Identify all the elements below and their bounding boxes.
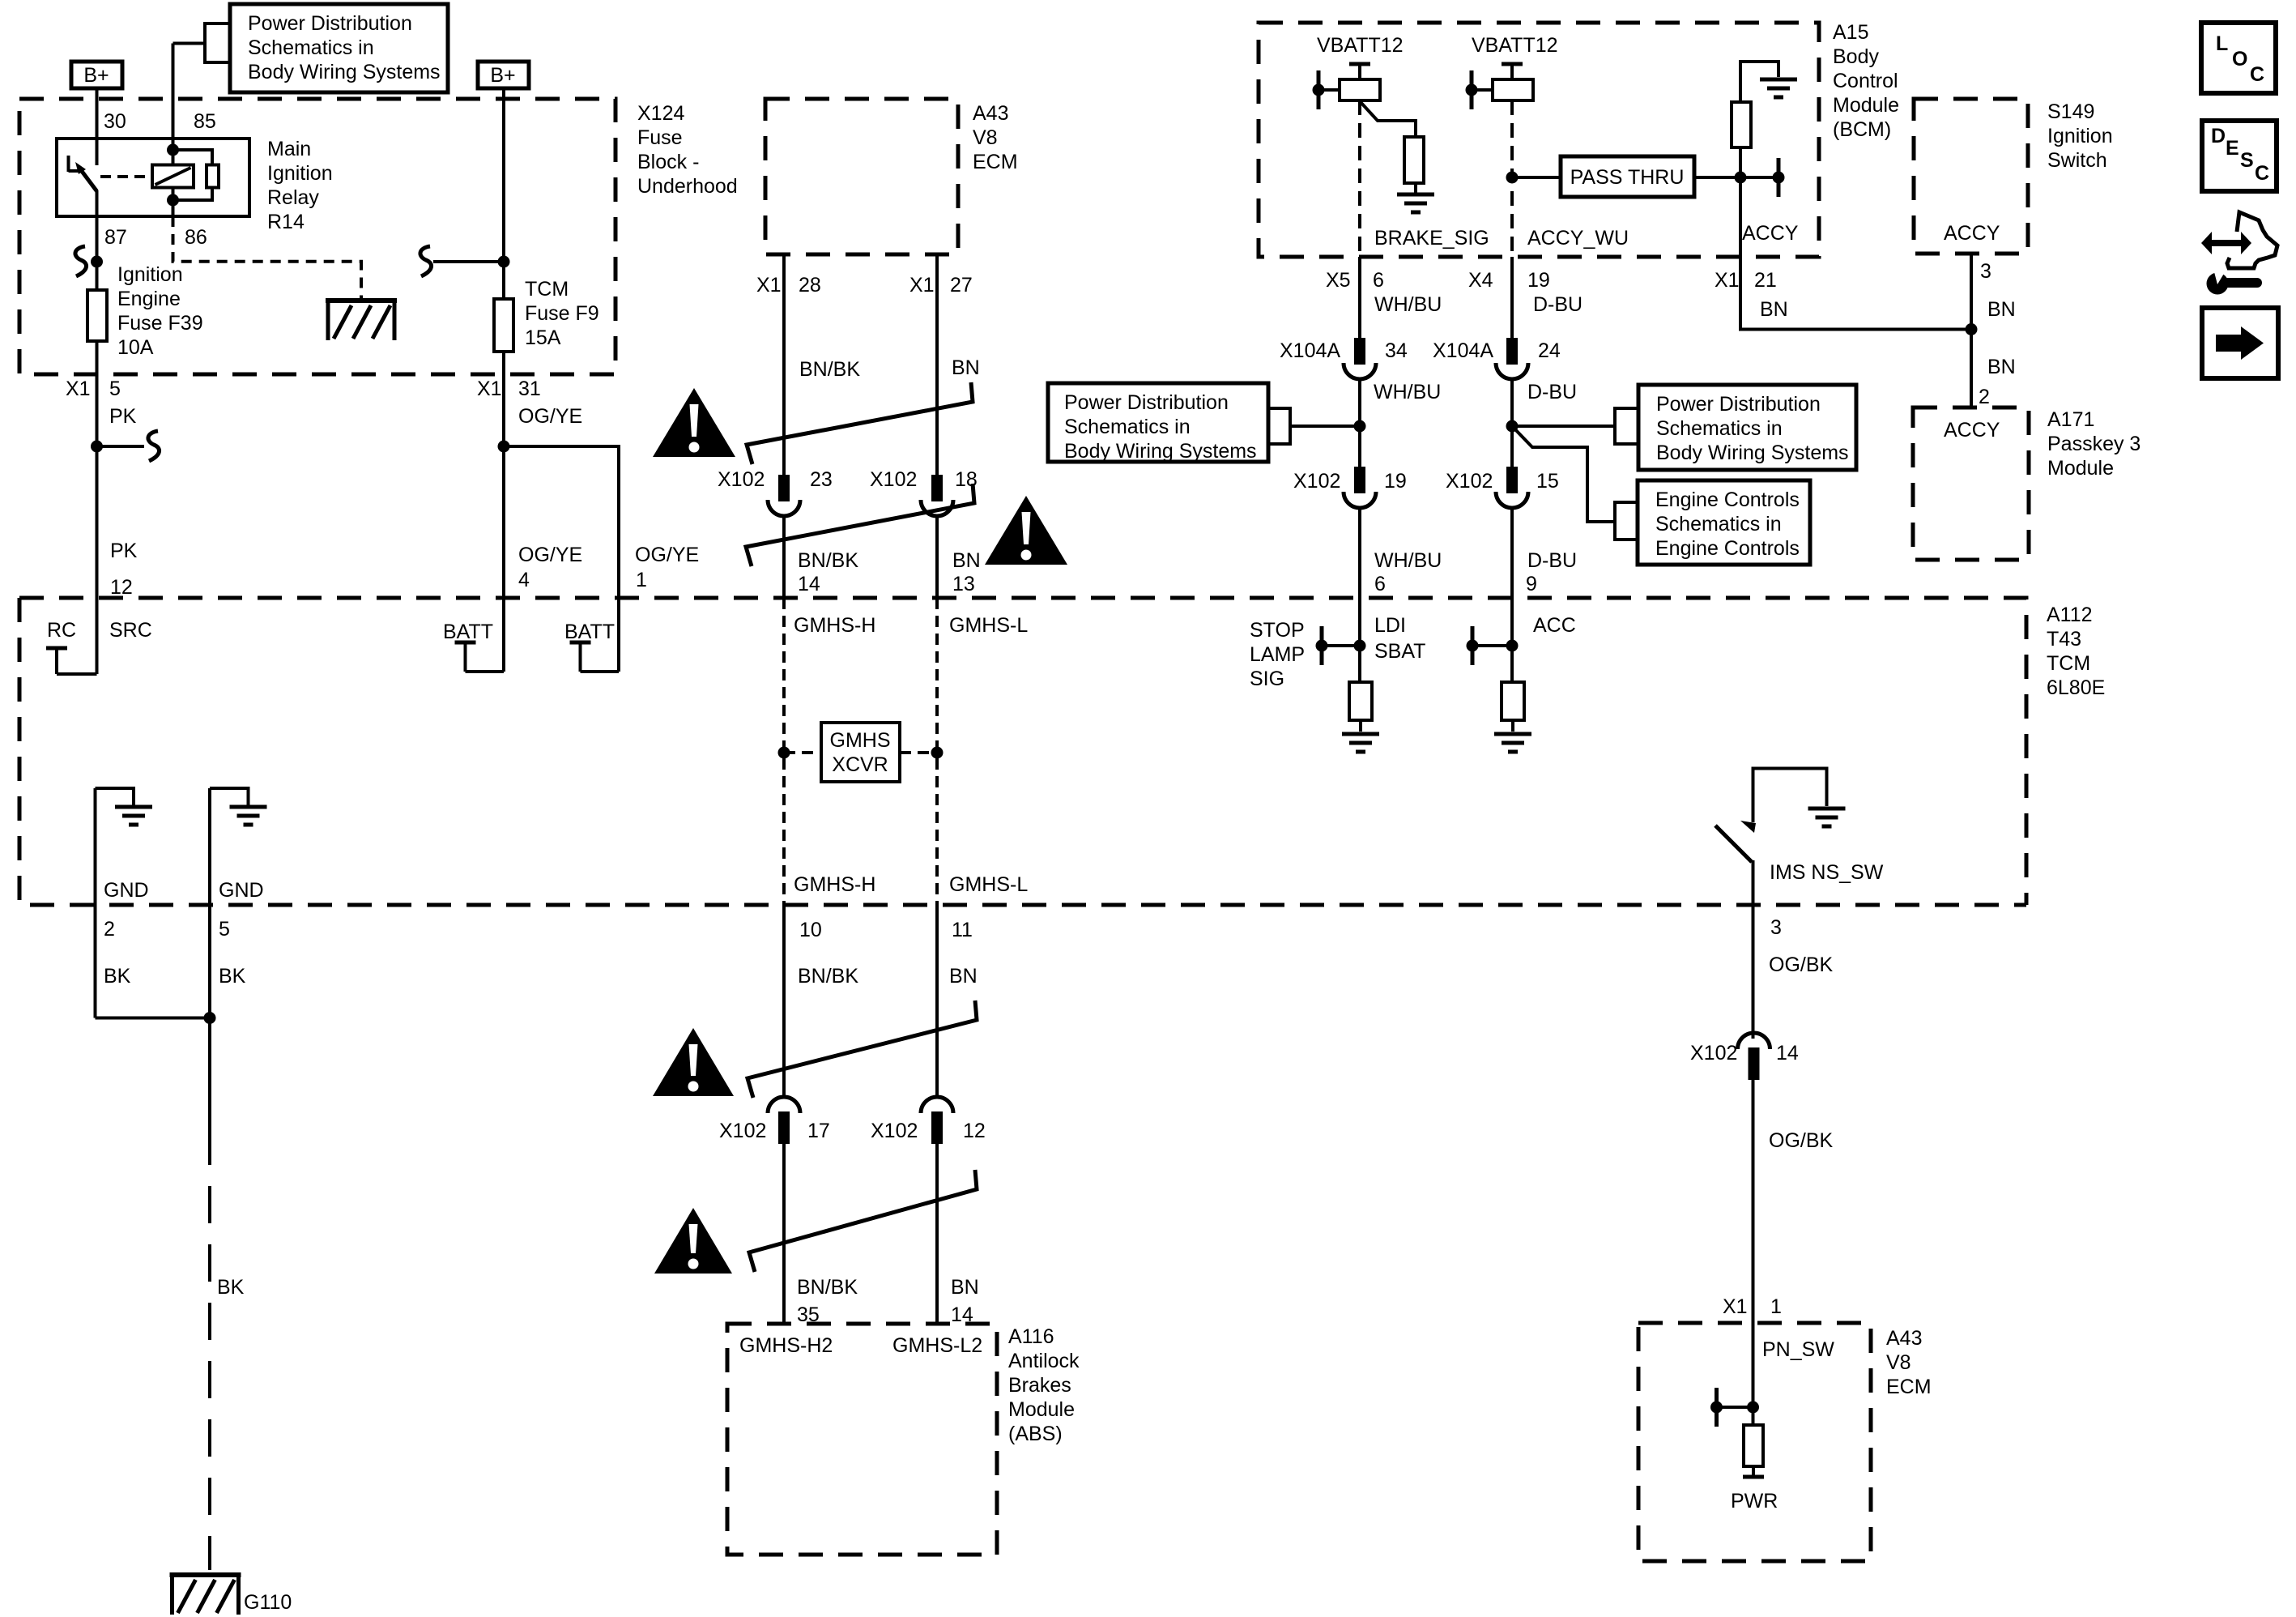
svg-text:X102: X102	[1446, 470, 1493, 493]
icon double arrow	[2201, 232, 2251, 254]
svg-text:PK: PK	[110, 540, 138, 562]
svg-text:X1: X1	[909, 274, 935, 297]
TCM internal terminal RC with SRC wire	[46, 598, 97, 674]
connector X102 pin 23	[768, 475, 800, 516]
relay contact (brake)	[1313, 70, 1381, 109]
svg-text:RC: RC	[47, 619, 76, 642]
wire ECM X1-27 GMHS-L (BN) to X102-18	[935, 254, 939, 475]
svg-text:Relay: Relay	[267, 186, 319, 209]
svg-text:SRC: SRC	[109, 619, 152, 642]
svg-text:X1: X1	[756, 274, 782, 297]
svg-text:2: 2	[104, 918, 115, 941]
labels LDI SBAT	[1374, 614, 1425, 663]
svg-text:GND: GND	[104, 879, 149, 902]
resistor above ACCY junction with ground	[1732, 62, 1797, 177]
label S149 Ignition Switch	[2047, 100, 2113, 172]
wire BCM ACCY BN joining pin 3 wire	[1740, 257, 1971, 330]
svg-text:34: 34	[1385, 339, 1408, 362]
svg-text:OG/YE: OG/YE	[518, 544, 582, 566]
svg-text:5: 5	[219, 918, 230, 941]
svg-text:ECM: ECM	[973, 151, 1018, 173]
svg-text:E: E	[2226, 137, 2239, 160]
label A116 Antilock Brakes Module (ABS)	[1008, 1325, 1080, 1445]
power feed B+ (second)	[478, 62, 529, 88]
chassis ground (relay coil)	[326, 301, 397, 340]
dashed net ACCY_WU	[1510, 100, 1514, 257]
svg-text:X1: X1	[1715, 269, 1740, 292]
svg-text:R14: R14	[267, 211, 305, 233]
icon box DESC	[2202, 121, 2277, 191]
fuse block X124 dashed box	[19, 99, 616, 374]
wire GMHS-H TCM pin 10 down to ABS	[782, 905, 786, 1098]
wire BK to ground G110 (dashed)	[208, 905, 211, 1570]
svg-text:BN: BN	[952, 356, 980, 379]
leader from D-BU junction to Engine Controls box	[1512, 426, 1638, 540]
wire S149 ACCY pin 3 (BN)	[1966, 254, 1978, 407]
labels WH/BU D-BU (second)	[1374, 381, 1577, 403]
svg-text:19: 19	[1527, 269, 1550, 292]
svg-text:5: 5	[109, 378, 121, 400]
svg-text:Power Distribution: Power Distribution	[1064, 391, 1229, 414]
svg-text:X102: X102	[1293, 470, 1340, 493]
svg-text:Main: Main	[267, 138, 311, 160]
label A43 V8 ECM	[973, 102, 1018, 173]
svg-text:OG/BK: OG/BK	[1769, 954, 1834, 976]
svg-text:X1: X1	[477, 378, 502, 400]
note box: Power Distribution Schematics in Body Wiring Systems (top left)	[230, 4, 448, 92]
wire leader from note box to relay pin 85 wire	[173, 23, 231, 139]
TCM internal terminal BATT (pin 4)	[455, 598, 505, 672]
svg-text:WH/BU: WH/BU	[1374, 381, 1441, 403]
svg-text:Antilock: Antilock	[1008, 1350, 1080, 1372]
label Ignition Engine Fuse F39 10A	[117, 263, 203, 359]
svg-text:4: 4	[518, 569, 530, 591]
fuse F9	[494, 299, 513, 352]
wire relay pin 86 dashed to chassis ground	[173, 216, 362, 299]
wire X102-15 to TCM pin 9	[1510, 508, 1514, 598]
svg-text:BN: BN	[1987, 298, 2016, 321]
labels X104A 34 X104A 24	[1280, 339, 1561, 362]
IMS switch arm with arrowhead contact	[1715, 821, 1756, 862]
GMHS XCVR block	[784, 723, 937, 782]
svg-text:6: 6	[1373, 269, 1384, 292]
module box A116 ABS dashed	[727, 1324, 997, 1555]
svg-text:30: 30	[104, 110, 126, 133]
twisted pair symbol 4	[749, 1170, 977, 1272]
ground G110	[170, 1575, 241, 1615]
wire BK pin2 joining pin5	[96, 905, 216, 1024]
svg-text:BK: BK	[217, 1276, 245, 1299]
svg-text:C: C	[2250, 63, 2264, 86]
svg-text:Block -: Block -	[637, 151, 699, 173]
svg-text:XCVR: XCVR	[832, 753, 888, 776]
svg-text:V8: V8	[1886, 1351, 1911, 1374]
dashed net GMHS-H inside TCM	[778, 598, 790, 905]
svg-text:Schematics in: Schematics in	[1655, 513, 1782, 535]
wire X102-23 to TCM pin 14	[782, 516, 786, 598]
labels X1 5 PK / PK 12	[66, 378, 138, 599]
svg-text:D-BU: D-BU	[1533, 293, 1582, 316]
svg-text:IMS NS_SW: IMS NS_SW	[1770, 861, 1884, 884]
note box: Engine Controls Schematics in Engine Controls	[1638, 480, 1810, 565]
svg-text:BN: BN	[951, 1276, 979, 1299]
svg-text:GMHS-H: GMHS-H	[794, 873, 875, 896]
wire fuse F9 to TCM pin X1-4 (OG/YE)	[498, 352, 510, 598]
label A43 V8 ECM (bottom)	[1886, 1327, 1932, 1398]
connector X104A pin 24	[1496, 338, 1528, 379]
warning triangle 3	[653, 1028, 734, 1096]
twisted pair symbol 2	[746, 484, 974, 566]
connector X102 pin 19	[1344, 467, 1376, 508]
svg-text:D-BU: D-BU	[1527, 549, 1577, 572]
module box A43 V8 ECM (bottom) dashed	[1638, 1323, 1871, 1561]
svg-text:Fuse F9: Fuse F9	[525, 302, 599, 325]
svg-text:GMHS-L: GMHS-L	[949, 614, 1028, 637]
icon car silhouette	[2227, 212, 2277, 268]
leader from D-BU junction to right note box	[1512, 408, 1638, 444]
label X124 Fuse Block - Underhood	[637, 102, 738, 198]
connector X102 pin 15	[1496, 467, 1528, 508]
power feed VBATT12 (right)	[1472, 34, 1558, 79]
svg-text:ACCY: ACCY	[1944, 222, 2000, 245]
svg-text:TCM: TCM	[525, 278, 569, 301]
svg-text:BATT: BATT	[443, 621, 493, 643]
svg-text:Body Wiring Systems: Body Wiring Systems	[1656, 442, 1849, 464]
svg-text:X4: X4	[1468, 269, 1493, 292]
label A171 Passkey 3 Module	[2047, 408, 2141, 480]
warning triangle 1	[653, 388, 735, 457]
svg-text:PWR: PWR	[1731, 1490, 1778, 1512]
svg-text:10A: 10A	[117, 336, 154, 359]
wire X104A-34 to X102-19	[1354, 379, 1366, 467]
label TCM Fuse F9 15A	[525, 278, 599, 349]
break symbol at pin 87	[75, 246, 87, 276]
svg-text:Engine Controls: Engine Controls	[1655, 489, 1800, 511]
svg-text:GMHS-H: GMHS-H	[794, 614, 875, 637]
svg-text:OG/YE: OG/YE	[518, 405, 582, 428]
wire X102-18 to TCM pin 13	[935, 516, 939, 598]
warning triangle 2	[985, 496, 1067, 565]
svg-text:A43: A43	[1886, 1327, 1922, 1350]
svg-text:Ignition: Ignition	[267, 162, 333, 185]
label IMS NS_SW	[1770, 861, 1884, 884]
label PWR	[1731, 1490, 1778, 1512]
labels OG/YE 4 / OG/YE 1	[518, 544, 699, 591]
IMS switch ground	[1753, 769, 1846, 827]
svg-text:G110: G110	[244, 1591, 292, 1614]
branch wire OG/YE to BATT pin 1	[504, 446, 619, 598]
resistor PWR with termination	[1743, 1425, 1764, 1477]
svg-text:Passkey 3: Passkey 3	[2047, 433, 2141, 455]
svg-text:31: 31	[518, 378, 541, 400]
wire labels BN/BK BN	[799, 356, 980, 381]
TCM internal ground GND pin 2	[96, 788, 153, 905]
ECM internal PN_SW pull-up network	[1710, 1323, 1759, 1427]
labels 10 11 BN/BK BN	[798, 919, 978, 988]
svg-text:Schematics in: Schematics in	[248, 36, 374, 59]
svg-text:GMHS-L: GMHS-L	[949, 873, 1028, 896]
leader bracket from WH/BU junction to middle note box	[1268, 408, 1360, 444]
fuse F39	[87, 290, 107, 341]
pin labels X5 6 X4 19 X1 21	[1326, 269, 1777, 292]
svg-text:X102: X102	[870, 468, 917, 491]
svg-text:Switch: Switch	[2047, 149, 2107, 172]
svg-text:BN: BN	[949, 965, 978, 988]
label G110	[244, 1591, 292, 1614]
labels RC SRC	[47, 619, 152, 642]
svg-text:OG/BK: OG/BK	[1769, 1129, 1834, 1152]
fuse F9 junction and break symbol	[420, 246, 510, 276]
svg-text:GMHS-H2: GMHS-H2	[739, 1334, 833, 1357]
svg-text:12: 12	[963, 1120, 986, 1142]
svg-text:Power Distribution: Power Distribution	[248, 12, 412, 35]
dashed net BRAKE_SIG	[1358, 100, 1361, 257]
labels X102 19 X102 15	[1293, 470, 1559, 493]
module box A171 Passkey 3 dashed	[1913, 407, 2029, 560]
resistor (brake pull) with ground	[1360, 101, 1434, 212]
label Main Ignition Relay R14	[267, 138, 333, 233]
label ACCY (S149)	[1944, 222, 2000, 245]
svg-text:(ABS): (ABS)	[1008, 1423, 1063, 1445]
module box A112 TCM dashed outline	[19, 598, 2026, 905]
svg-text:Brakes: Brakes	[1008, 1374, 1071, 1397]
labels GMHS-H GMHS-L (TCM top)	[794, 614, 1028, 637]
svg-text:11: 11	[952, 919, 973, 941]
wire X104A-24 to X102-15	[1506, 379, 1519, 467]
svg-text:21: 21	[1754, 269, 1777, 292]
svg-text:ACCY_WU: ACCY_WU	[1527, 227, 1629, 250]
svg-text:Ignition: Ignition	[117, 263, 183, 286]
svg-text:13: 13	[952, 573, 975, 595]
svg-text:Body Wiring Systems: Body Wiring Systems	[1064, 440, 1257, 463]
dashed net GMHS-L inside TCM	[931, 598, 944, 905]
labels X102 23 X102 18	[718, 468, 978, 491]
icon wrench	[2207, 269, 2263, 295]
labels GMHS-H GMHS-L (TCM bottom)	[794, 873, 1028, 896]
svg-text:BK: BK	[104, 965, 131, 988]
svg-text:GND: GND	[219, 879, 264, 902]
note box: Power Distribution Schematics in Body Wiring Systems (right)	[1638, 385, 1856, 470]
svg-text:A116: A116	[1008, 1325, 1054, 1348]
relay pin labels 30 85 87 86	[104, 110, 216, 249]
svg-text:BN/BK: BN/BK	[799, 358, 860, 381]
label ACCY (A171)	[1944, 419, 2000, 442]
svg-text:X124: X124	[637, 102, 684, 125]
svg-text:WH/BU: WH/BU	[1374, 549, 1442, 572]
pin labels X1 28 X1 27	[756, 274, 973, 297]
svg-text:S: S	[2240, 149, 2254, 172]
svg-text:PK: PK	[109, 405, 137, 428]
module box A15 BCM dashed	[1259, 23, 1819, 257]
svg-text:Module: Module	[2047, 457, 2114, 480]
svg-text:86: 86	[185, 226, 207, 249]
labels X1 1	[1723, 1295, 1782, 1318]
svg-text:1: 1	[1770, 1295, 1782, 1318]
svg-text:15: 15	[1536, 470, 1559, 493]
svg-text:PN_SW: PN_SW	[1762, 1338, 1834, 1361]
svg-text:3: 3	[1980, 260, 1991, 283]
svg-text:Control: Control	[1833, 70, 1898, 92]
twisted pair symbol 3	[748, 1000, 977, 1098]
labels 3 BN BN 2	[1979, 260, 2016, 408]
break symbol branch on PK wire	[97, 431, 160, 461]
svg-text:X1: X1	[66, 378, 91, 400]
PASS THRU block with wire	[1506, 156, 1779, 197]
svg-text:C: C	[2255, 162, 2269, 185]
svg-text:BN/BK: BN/BK	[797, 1276, 858, 1299]
svg-text:87: 87	[104, 226, 127, 249]
resistor LDI with ground	[1342, 682, 1379, 752]
svg-text:24: 24	[1538, 339, 1561, 362]
svg-text:X104A: X104A	[1433, 339, 1493, 362]
labels BATT BATT	[443, 621, 615, 643]
svg-text:28: 28	[799, 274, 821, 297]
svg-text:14: 14	[798, 573, 820, 595]
svg-text:3: 3	[1770, 916, 1782, 939]
svg-text:SIG: SIG	[1250, 668, 1284, 690]
relay contact (accy wakeup)	[1466, 70, 1534, 109]
svg-text:Module: Module	[1008, 1398, 1075, 1421]
svg-text:ACCY: ACCY	[1944, 419, 2000, 442]
connector X102 pin 17	[768, 1097, 800, 1144]
svg-text:(BCM): (BCM)	[1833, 118, 1891, 141]
svg-text:LAMP: LAMP	[1250, 643, 1305, 666]
svg-text:Underhood: Underhood	[637, 175, 738, 198]
wire X102-19 to TCM pin 6	[1358, 508, 1361, 598]
svg-text:L: L	[2216, 32, 2228, 55]
labels 3 OG/BK	[1769, 916, 1834, 976]
connector X104A pin 34	[1344, 338, 1376, 379]
wire X102-14 to ECM X1-1	[1752, 1080, 1755, 1323]
svg-text:Schematics in: Schematics in	[1064, 416, 1191, 438]
wires below X102 17/12	[784, 1144, 937, 1324]
svg-text:B+: B+	[83, 64, 109, 87]
TCM internal terminal BATT (pin 1)	[570, 598, 620, 672]
svg-text:BN: BN	[1760, 298, 1788, 321]
labels BN/BK 14 BN 13	[798, 549, 981, 595]
svg-text:BN: BN	[1987, 356, 2016, 378]
svg-text:GMHS-L2: GMHS-L2	[892, 1334, 982, 1357]
wire ECM X1-28 GMHS-H (BN/BK) to X102-23	[782, 254, 786, 475]
wire relay 87 to fuse F39	[91, 216, 103, 290]
svg-text:X102: X102	[871, 1120, 918, 1142]
svg-text:X102: X102	[718, 468, 765, 491]
svg-text:SBAT: SBAT	[1374, 640, 1425, 663]
svg-text:A112: A112	[2047, 604, 2093, 626]
svg-text:BN/BK: BN/BK	[798, 965, 858, 988]
labels X1 31 OG/YE	[477, 378, 582, 428]
svg-text:A15: A15	[1833, 21, 1868, 44]
svg-text:WH/BU: WH/BU	[1374, 293, 1442, 316]
svg-text:X102: X102	[1690, 1042, 1737, 1064]
svg-text:S149: S149	[2047, 100, 2094, 123]
svg-text:ACCY: ACCY	[1742, 222, 1799, 245]
svg-text:BATT: BATT	[564, 621, 615, 643]
svg-text:19: 19	[1384, 470, 1407, 493]
svg-text:A43: A43	[973, 102, 1008, 125]
wire B+ to relay pin 30	[96, 88, 99, 139]
svg-text:B+: B+	[490, 64, 515, 87]
label ACCY_WU	[1527, 227, 1629, 250]
wire ACCY to BCM pin X1-21	[1739, 177, 1742, 257]
svg-text:VBATT12: VBATT12	[1472, 34, 1558, 57]
label A15 Body Control Module (BCM)	[1833, 21, 1899, 141]
svg-text:BN/BK: BN/BK	[798, 549, 858, 572]
svg-text:85: 85	[194, 110, 216, 133]
wire B+ to TCM fuse F9	[502, 88, 505, 299]
svg-text:Fuse F39: Fuse F39	[117, 312, 203, 335]
svg-text:Engine: Engine	[117, 288, 181, 310]
note box: Power Distribution Schematics in Body Wiring Systems (middle)	[1048, 383, 1268, 463]
svg-text:6L80E: 6L80E	[2047, 676, 2105, 699]
svg-text:BK: BK	[219, 965, 246, 988]
svg-text:2: 2	[1979, 386, 1990, 408]
svg-text:V8: V8	[973, 126, 998, 149]
labels STOP LAMP SIG	[1250, 619, 1305, 690]
svg-text:Engine Controls: Engine Controls	[1655, 537, 1800, 560]
svg-text:ACC: ACC	[1533, 614, 1576, 637]
svg-text:Schematics in: Schematics in	[1656, 417, 1783, 440]
svg-text:VBATT12: VBATT12	[1317, 34, 1404, 57]
svg-text:ECM: ECM	[1886, 1376, 1932, 1398]
svg-text:BN: BN	[952, 549, 981, 572]
svg-text:BRAKE_SIG: BRAKE_SIG	[1374, 227, 1489, 250]
wire ACCY_WU X4-19 to X104A-24	[1510, 257, 1514, 338]
svg-text:GMHS: GMHS	[830, 729, 891, 752]
icon box LOC	[2201, 23, 2276, 93]
power feed B+ (left)	[71, 62, 122, 88]
label A112 T43 TCM 6L80E	[2047, 604, 2105, 699]
label BK	[217, 1276, 245, 1299]
svg-text:14: 14	[1776, 1042, 1799, 1064]
label PN_SW	[1762, 1338, 1834, 1361]
label ACCY (BCM)	[1742, 222, 1799, 245]
svg-text:TCM: TCM	[2047, 652, 2090, 675]
wire IMS NS_SW pin 3 OG/BK	[1752, 860, 1755, 1039]
svg-text:6: 6	[1374, 573, 1386, 595]
labels X102 17 X102 12	[719, 1120, 986, 1142]
svg-text:Ignition: Ignition	[2047, 125, 2113, 147]
connector X102 pin 12	[921, 1097, 953, 1144]
contact bar right of PASS THRU	[1773, 158, 1785, 197]
svg-text:17: 17	[807, 1120, 830, 1142]
twisted pair symbol 1	[747, 382, 973, 464]
module box A43 V8 ECM dashed	[765, 99, 958, 254]
connector X102 pin 18	[921, 475, 953, 516]
svg-text:12: 12	[110, 576, 133, 599]
wire GMHS-L TCM pin 11 down to ABS	[935, 905, 939, 1098]
svg-text:1: 1	[636, 569, 647, 591]
svg-text:D-BU: D-BU	[1527, 381, 1577, 403]
svg-text:OG/YE: OG/YE	[635, 544, 699, 566]
svg-text:X104A: X104A	[1280, 339, 1340, 362]
labels X102 14	[1690, 1042, 1799, 1064]
labels WH/BU 6 D-BU 9	[1374, 549, 1577, 595]
svg-text:Fuse: Fuse	[637, 126, 683, 149]
svg-text:Body Wiring Systems: Body Wiring Systems	[248, 61, 441, 83]
TCM internal ground GND pin 5	[210, 788, 267, 905]
svg-text:D: D	[2211, 125, 2226, 147]
svg-text:10: 10	[799, 919, 822, 941]
label BRAKE_SIG	[1374, 227, 1489, 250]
svg-text:X5: X5	[1326, 269, 1351, 292]
label ACC	[1533, 614, 1576, 637]
wire fuse F39 to TCM pin X1-5 (PK)	[91, 341, 103, 598]
svg-text:Module: Module	[1833, 94, 1899, 117]
svg-text:X1: X1	[1723, 1295, 1748, 1318]
labels GND GND 2 5 BK BK	[104, 879, 264, 988]
power feed VBATT12 (left)	[1317, 34, 1404, 79]
